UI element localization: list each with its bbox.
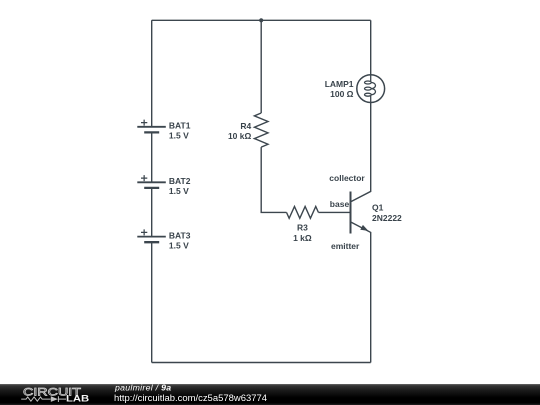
svg-text:base: base [330, 199, 350, 209]
svg-text:1.5 V: 1.5 V [169, 186, 189, 196]
svg-text:1.5 V: 1.5 V [169, 241, 189, 251]
svg-text:LAMP1: LAMP1 [325, 79, 354, 89]
svg-text:R3: R3 [297, 222, 308, 232]
svg-text:2N2222: 2N2222 [372, 213, 402, 223]
svg-text:R4: R4 [240, 121, 251, 131]
svg-text:1.5 V: 1.5 V [169, 131, 189, 141]
svg-text:100 Ω: 100 Ω [330, 89, 354, 99]
svg-text:collector: collector [329, 173, 365, 183]
svg-text:Q1: Q1 [372, 203, 384, 213]
svg-text:BAT1: BAT1 [169, 121, 191, 131]
svg-text:LAB: LAB [66, 394, 89, 404]
svg-text:paulmirel / 9a: paulmirel / 9a [114, 384, 171, 393]
svg-text:http://circuitlab.com/cz5a578w: http://circuitlab.com/cz5a578w63774 [114, 393, 267, 403]
svg-text:1 kΩ: 1 kΩ [293, 233, 312, 243]
svg-text:BAT2: BAT2 [169, 176, 191, 186]
svg-text:BAT3: BAT3 [169, 231, 191, 241]
svg-text:10 kΩ: 10 kΩ [228, 131, 252, 141]
svg-text:emitter: emitter [331, 241, 360, 251]
